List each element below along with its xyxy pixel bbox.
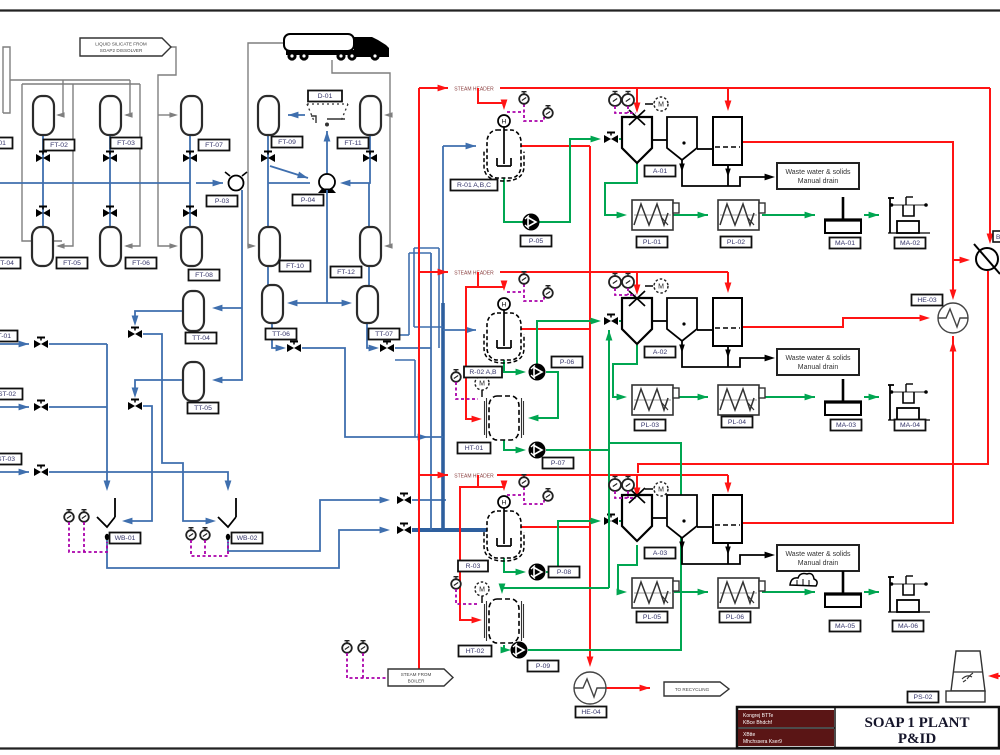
svg-text:PS-02: PS-02 [914,694,933,701]
svg-text:PL-02: PL-02 [727,239,745,246]
svg-text:B: B [996,234,1000,241]
svg-text:PL-06: PL-06 [726,614,744,621]
svg-text:Kongrej BTTe: Kongrej BTTe [743,713,774,719]
svg-text:TT-07: TT-07 [375,331,393,338]
svg-text:TT-04: TT-04 [192,335,210,342]
svg-text:P-05: P-05 [529,238,544,245]
svg-text:STEAM HEADER: STEAM HEADER [454,271,494,277]
svg-text:R-03: R-03 [466,563,481,570]
svg-text:P-08: P-08 [557,569,572,576]
svg-text:FT-08: FT-08 [195,272,213,279]
svg-text:TT-05: TT-05 [194,405,212,412]
svg-text:Mhchssera Kser9: Mhchssera Kser9 [743,739,782,745]
svg-text:P&ID: P&ID [898,731,936,747]
svg-text:FT-07: FT-07 [205,142,223,149]
svg-text:P-03: P-03 [215,198,230,205]
svg-text:FT-11: FT-11 [344,140,361,147]
svg-text:TO RECYCLING: TO RECYCLING [675,687,710,692]
svg-text:FT-02: FT-02 [50,142,68,149]
svg-text:TT-06: TT-06 [272,331,290,338]
svg-text:SOAP 1 PLANT: SOAP 1 PLANT [864,715,969,731]
svg-text:FT-09: FT-09 [278,139,296,146]
svg-text:H: H [502,119,507,126]
svg-text:ST-03: ST-03 [0,456,15,463]
svg-text:Manual drain: Manual drain [798,178,839,185]
svg-text:A-02: A-02 [653,349,668,356]
svg-text:MA-05: MA-05 [835,623,855,630]
svg-text:WB-02: WB-02 [237,535,258,542]
svg-text:MA-04: MA-04 [900,422,920,429]
svg-text:BOILER: BOILER [408,678,426,683]
svg-text:FT-04: FT-04 [0,260,14,267]
svg-text:P-07: P-07 [551,460,566,467]
svg-text:Waste water & solids: Waste water & solids [785,551,851,558]
svg-text:M: M [479,380,485,387]
svg-text:XBtte: XBtte [743,732,755,738]
svg-text:M: M [658,486,664,493]
svg-text:P-06: P-06 [560,359,575,366]
svg-text:D-01: D-01 [318,93,333,100]
svg-text:HE-03: HE-03 [917,297,936,304]
svg-text:PL-04: PL-04 [728,419,746,426]
svg-text:SOAP2 DISSOLVER: SOAP2 DISSOLVER [100,48,143,53]
svg-text:P-04: P-04 [301,197,316,204]
svg-text:PL-05: PL-05 [643,614,661,621]
svg-text:Waste water & solids: Waste water & solids [785,169,851,176]
svg-text:P-09: P-09 [536,663,551,670]
svg-text:H: H [502,500,507,507]
svg-text:ST-02: ST-02 [0,391,16,398]
svg-text:HT-02: HT-02 [466,648,485,655]
svg-text:M: M [658,101,664,108]
svg-text:PL-03: PL-03 [641,422,659,429]
svg-text:R-01 A,B,C: R-01 A,B,C [457,182,491,189]
svg-text:Manual drain: Manual drain [798,560,839,567]
svg-text:STEAM FROM: STEAM FROM [401,672,432,677]
svg-text:HT-01: HT-01 [465,445,484,452]
svg-text:FT-10: FT-10 [286,263,304,270]
svg-text:LIQUID SILICATE FROM: LIQUID SILICATE FROM [95,42,147,47]
svg-text:FT-06: FT-06 [132,260,150,267]
svg-text:FT-03: FT-03 [117,140,135,147]
svg-text:MA-01: MA-01 [835,240,855,247]
svg-text:MA-06: MA-06 [898,623,918,630]
svg-text:FT-05: FT-05 [63,260,81,267]
svg-text:FT-01: FT-01 [0,140,6,147]
svg-text:M: M [658,283,664,290]
svg-text:HE-04: HE-04 [581,709,600,716]
svg-text:MA-02: MA-02 [900,240,920,247]
svg-text:M: M [479,586,485,593]
svg-text:ST-01: ST-01 [0,333,11,340]
svg-text:FT-12: FT-12 [337,269,355,276]
svg-text:A-03: A-03 [653,550,668,557]
svg-text:STEAM HEADER: STEAM HEADER [454,474,494,480]
svg-text:WB-01: WB-01 [115,535,136,542]
svg-text:A-01: A-01 [653,168,668,175]
svg-text:KBce Bhdchf: KBce Bhdchf [743,720,773,726]
svg-text:Waste water & solids: Waste water & solids [785,355,851,362]
svg-text:Manual drain: Manual drain [798,364,839,371]
svg-text:PL-01: PL-01 [643,239,661,246]
svg-text:H: H [502,302,507,309]
svg-text:MA-03: MA-03 [836,422,856,429]
svg-text:STEAM HEADER: STEAM HEADER [454,87,494,93]
svg-text:R-02 A,B: R-02 A,B [469,369,497,376]
